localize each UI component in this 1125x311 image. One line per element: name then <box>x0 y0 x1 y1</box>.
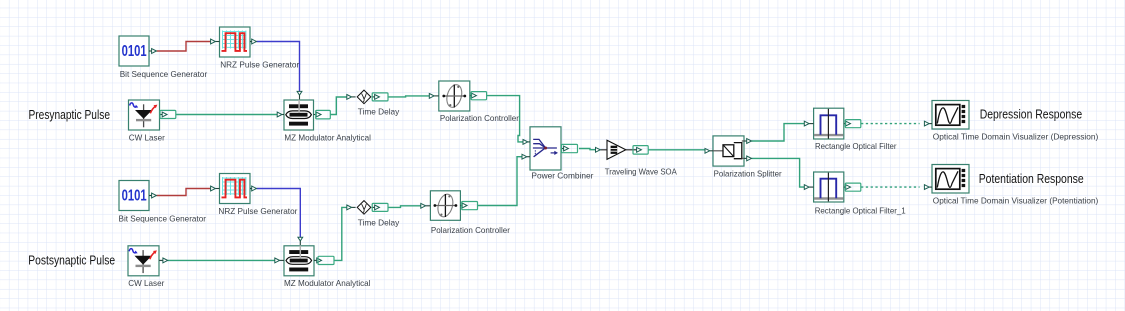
port: Visualizer2 input <box>924 185 932 190</box>
svg-text:Bit Sequence Generator: Bit Sequence Generator <box>119 213 207 223</box>
svg-text:Traveling Wave SOA: Traveling Wave SOA <box>605 167 677 177</box>
svg-text:Time Delay: Time Delay <box>358 217 400 227</box>
wire: dashed optical Filter_1 to Visualizer2 <box>861 186 920 188</box>
svg-text:Rectangle Optical Filter: Rectangle Optical Filter <box>815 141 897 151</box>
port: Splitter input <box>705 148 713 153</box>
port: TimeDelay2 input <box>347 205 356 210</box>
svg-text:NRZ Pulse Generator: NRZ Pulse Generator <box>220 60 299 70</box>
wire: green optical SOA to Splitter <box>648 149 705 151</box>
component U5: Time Delay (top) <box>357 90 371 104</box>
port: MZ2 optical input <box>275 258 284 263</box>
port: NRZ1 output <box>250 39 257 44</box>
port: BSG2 output <box>149 193 156 198</box>
wire: green optical PC1 to PowerCombiner in1 <box>487 96 524 142</box>
port: MZ1 optical input <box>277 112 284 117</box>
svg-text:Bit Sequence Generator: Bit Sequence Generator <box>120 69 208 79</box>
wire: green optical CW2 to MZ2 <box>168 259 275 261</box>
svg-text:0101: 0101 <box>122 188 147 205</box>
port: TimeDelay2 output with connection box <box>372 203 388 211</box>
port: Splitter output 2 <box>744 156 752 161</box>
arrowhead: blue down-arrow into MZ2 top port <box>298 237 303 241</box>
port: PowerCombiner output with connection box <box>561 144 578 152</box>
port: MZ2 output with connection box <box>314 256 334 264</box>
port: BSG1 output <box>149 49 156 54</box>
component U4: MZ Modulator Analytical (top) <box>284 100 314 130</box>
port: PowerCombiner input 2 <box>522 154 530 159</box>
component U9: Polarization Splitter <box>713 136 744 166</box>
wire: green optical PC2 to PowerCombiner in2 <box>478 157 523 206</box>
wire: green optical Splitter out1 to Filter1 <box>752 124 805 141</box>
wire: green optical TimeDelay2 to PC2 <box>388 206 421 208</box>
component U13: NRZ Pulse Generator (bottom) <box>220 174 251 204</box>
port: PC1 output with connection box <box>470 92 487 100</box>
svg-text:Depression Response: Depression Response <box>980 107 1083 121</box>
wire: green optical PowerCombiner to SOA <box>579 149 595 150</box>
svg-text:MZ Modulator Analytical: MZ Modulator Analytical <box>284 278 371 288</box>
svg-text:Optical Time Domain Visualizer: Optical Time Domain Visualizer (Depressi… <box>933 132 1099 142</box>
port: PowerCombiner input 1 <box>523 140 530 145</box>
component U15: MZ Modulator Analytical (bottom) <box>284 246 314 276</box>
component U19: Optical Time Domain Visualizer (Potentiation) <box>932 165 969 194</box>
port: CW1 output with connection box <box>160 110 176 118</box>
port: PC2 output with connection box <box>460 202 477 210</box>
port: NRZ2 output <box>250 186 257 191</box>
wire: green optical Splitter out2 to Filter_1 <box>752 158 805 187</box>
port: TimeDelay1 output with connection box <box>372 93 388 101</box>
component U3: CW Laser (top) <box>129 100 160 130</box>
svg-text:NRZ Pulse Generator: NRZ Pulse Generator <box>218 206 297 216</box>
wire: green optical MZ1 to TimeDelay1 <box>330 97 347 115</box>
component U14: CW Laser (bottom) <box>128 246 159 276</box>
port: PC2 input <box>421 203 431 208</box>
component U17: Polarization Controller (bottom) <box>430 191 460 221</box>
svg-text:0101: 0101 <box>122 43 147 60</box>
svg-text:Polarization Controller: Polarization Controller <box>431 225 510 235</box>
component U8: Traveling Wave SOA <box>600 140 636 159</box>
component U6: Polarization Controller (top) <box>439 81 470 111</box>
wire: blue electrical wire NRZ1 to MZ1 top <box>257 42 300 92</box>
svg-text:Presynaptic Pulse: Presynaptic Pulse <box>29 108 111 122</box>
component U18: Rectangle Optical Filter_1 <box>814 172 844 202</box>
component U16: Time Delay (bottom) <box>357 201 371 215</box>
component U11: Optical Time Domain Visualizer (Depression) <box>932 101 969 130</box>
port: NRZ2 input <box>211 186 220 191</box>
port: Filter_1 input <box>804 185 813 190</box>
svg-text:Polarization Splitter: Polarization Splitter <box>714 168 782 178</box>
wire: blue electrical wire NRZ2 to MZ2 top <box>257 189 301 238</box>
wire: red binary wire BSG2 to NRZ2 <box>157 189 211 196</box>
component U2: NRZ Pulse Generator (top) <box>220 27 251 57</box>
port: NRZ1 input <box>211 39 220 44</box>
svg-text:Power Combiner: Power Combiner <box>531 171 593 181</box>
port: Splitter output 1 <box>744 139 752 144</box>
port: Filter1 input <box>804 121 813 126</box>
component U1: Bit Sequence Generator (top) <box>119 36 149 66</box>
component U7: Power Combiner <box>530 127 561 170</box>
svg-text:Potentiation Response: Potentiation Response <box>979 172 1084 186</box>
arrowhead: blue down-arrow into MZ1 top port <box>297 91 302 95</box>
wire: dashed optical Filter1 to Visualizer1 <box>861 123 920 125</box>
wire: red binary wire BSG1 to NRZ1 <box>157 42 211 52</box>
port: Filter1 output with connection box <box>844 120 861 128</box>
port: CW2 output <box>159 258 168 263</box>
port: SOA output with connection box <box>633 146 648 155</box>
svg-text:Time Delay: Time Delay <box>358 107 400 117</box>
svg-text:Rectangle Optical Filter_1: Rectangle Optical Filter_1 <box>815 206 906 216</box>
svg-text:Optical Time Domain Visualizer: Optical Time Domain Visualizer (Potentia… <box>933 196 1099 206</box>
port: PC1 input <box>429 94 439 99</box>
svg-text:CW Laser: CW Laser <box>129 132 165 142</box>
wire: green optical TimeDelay1 to PC1 <box>388 96 429 97</box>
port: Filter_1 output with connection box <box>844 183 861 191</box>
component U12: Bit Sequence Generator (bottom) <box>119 181 149 211</box>
wire: green optical MZ2 to TimeDelay2 <box>334 207 347 260</box>
svg-text:Polarization Controller: Polarization Controller <box>440 113 519 123</box>
svg-text:CW Laser: CW Laser <box>128 278 164 288</box>
port: TimeDelay1 input <box>347 95 356 100</box>
svg-text:MZ Modulator Analytical: MZ Modulator Analytical <box>284 132 371 142</box>
port: SOA input <box>596 147 601 152</box>
port: MZ1 output with connection box <box>314 110 331 119</box>
svg-text:Postsynaptic Pulse: Postsynaptic Pulse <box>28 253 115 267</box>
wire: green optical CW1 to MZ1 <box>176 114 277 116</box>
component U10: Rectangle Optical Filter (top) <box>814 108 844 139</box>
port: Visualizer1 input <box>924 121 932 126</box>
